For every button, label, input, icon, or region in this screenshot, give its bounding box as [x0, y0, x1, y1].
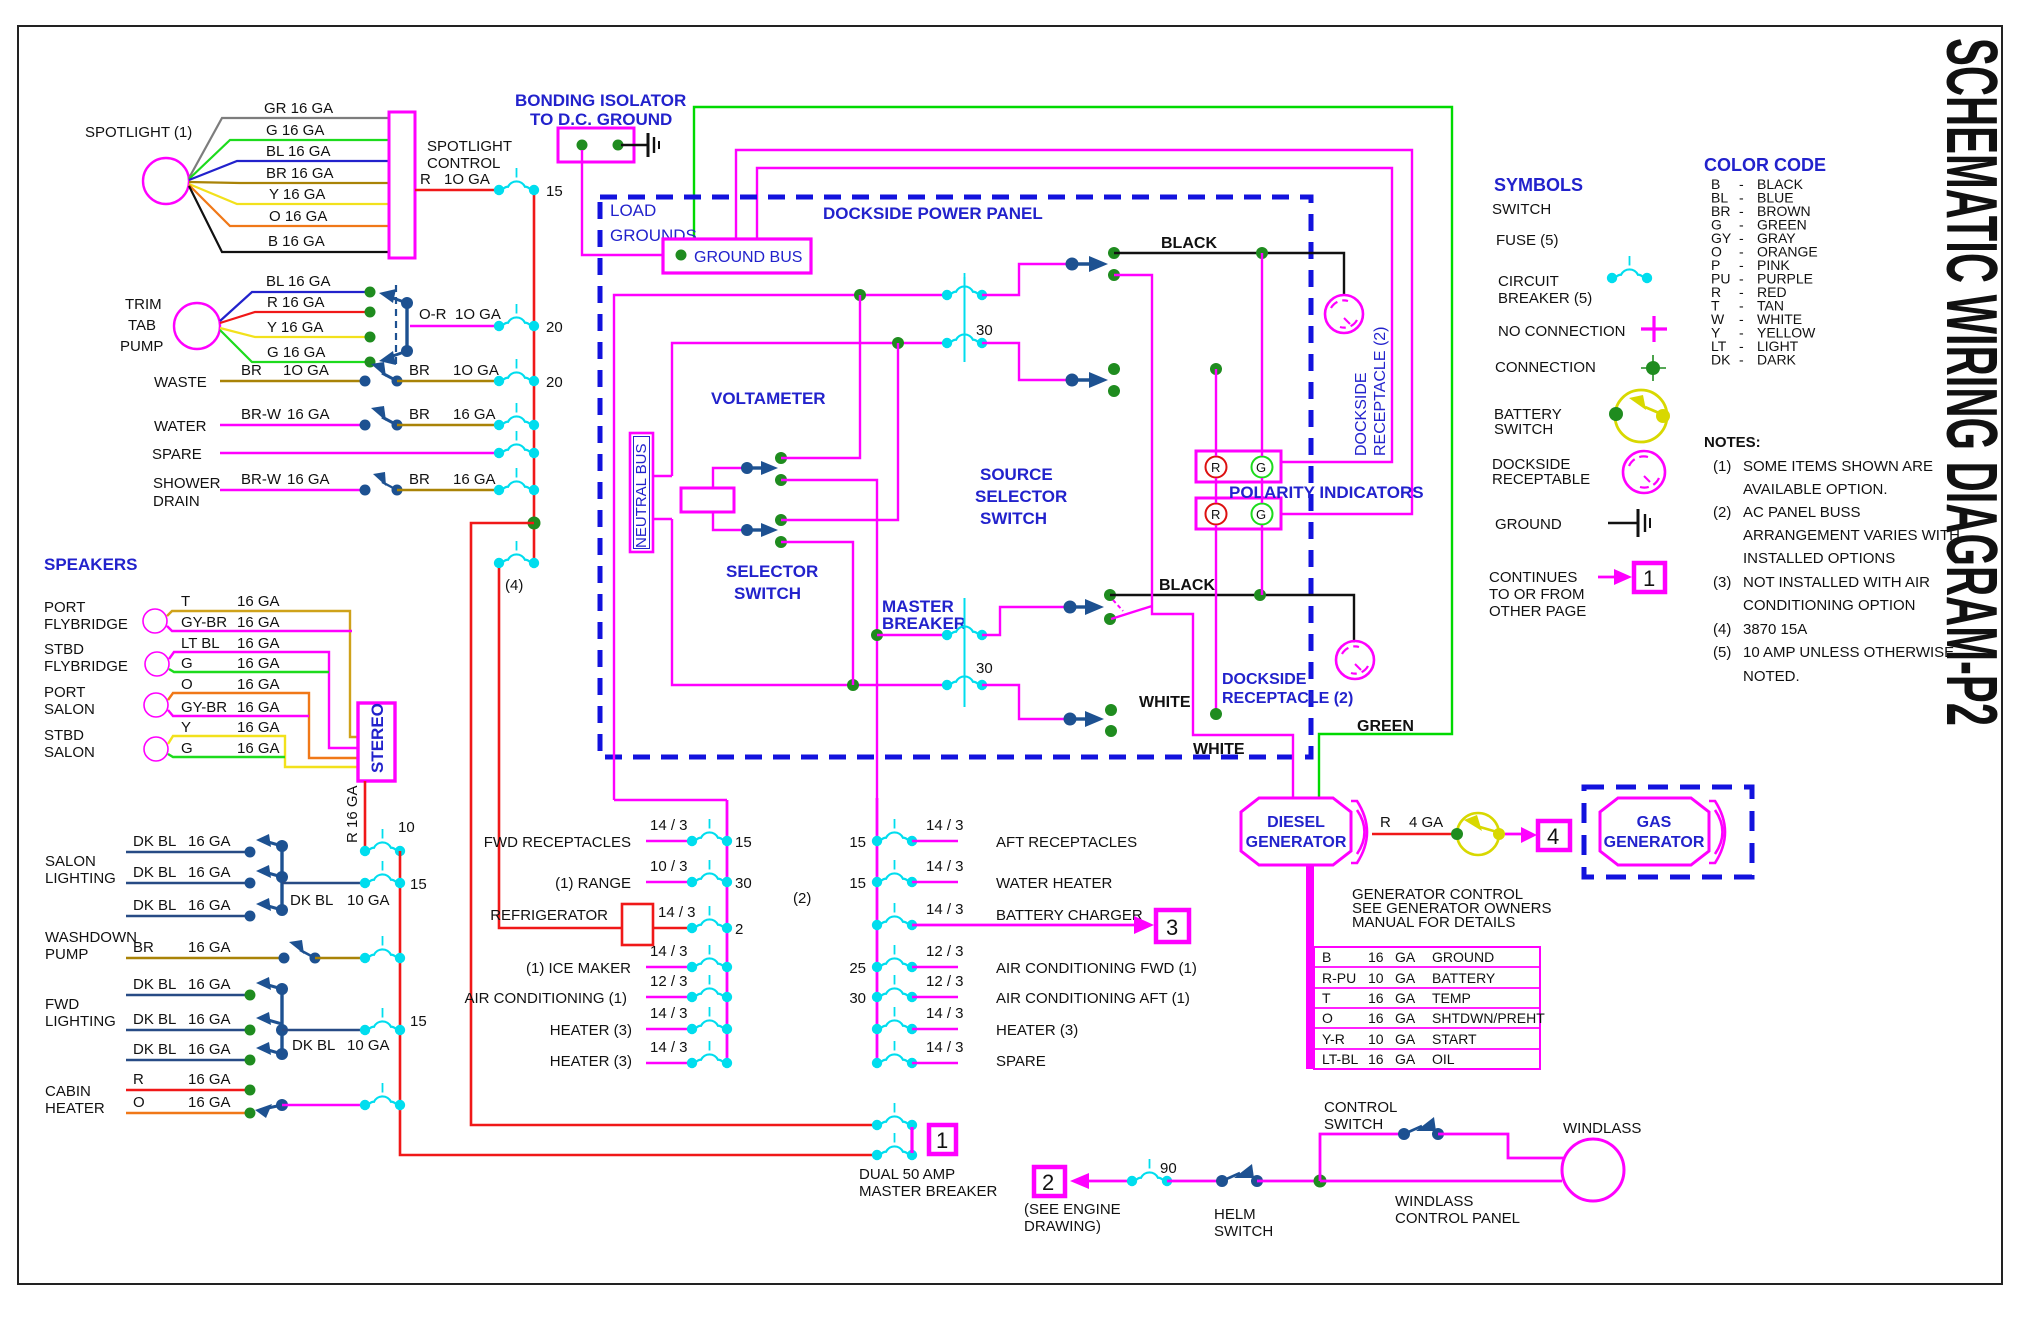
svg-text:FUSE (5): FUSE (5)	[1496, 232, 1559, 249]
svg-text:Y-R: Y-R	[1322, 1031, 1345, 1047]
svg-text:REFRIGERATOR: REFRIGERATOR	[490, 907, 608, 924]
svg-text:R 16 GA: R 16 GA	[344, 785, 361, 843]
svg-text:10 GA: 10 GA	[347, 892, 390, 909]
svg-text:10 GA: 10 GA	[347, 1037, 390, 1054]
wire DK BL 16 GA	[126, 1029, 250, 1031]
svg-text:SPARE: SPARE	[152, 446, 202, 463]
junction node	[1314, 1175, 1327, 1188]
BONDING ISOLATOR box	[558, 128, 634, 162]
svg-text:16 GA: 16 GA	[237, 740, 280, 757]
svg-text:BREAKER (5): BREAKER (5)	[1498, 290, 1592, 307]
svg-text:16 GA: 16 GA	[453, 471, 496, 488]
wire GY-BR 16 GA	[167, 626, 352, 631]
magenta polarity feed wire 2	[757, 168, 1392, 462]
svg-text:14 / 3: 14 / 3	[926, 901, 964, 918]
svg-text:DK BL: DK BL	[133, 833, 176, 850]
wire DK BL 16 GA	[126, 994, 250, 996]
red lighting bus	[400, 851, 877, 1155]
svg-text:DRAIN: DRAIN	[153, 493, 200, 510]
svg-text:14 / 3: 14 / 3	[926, 817, 964, 834]
wire DK BL 10 GA to breaker	[282, 882, 365, 884]
water switch	[360, 420, 371, 431]
wire R 4 GA	[1372, 833, 1457, 836]
svg-text:20: 20	[546, 319, 563, 336]
svg-text:DARK: DARK	[1757, 352, 1797, 368]
wire Y 16 GA	[168, 736, 358, 767]
svg-text:1: 1	[1643, 566, 1655, 591]
svg-text:(2): (2)	[793, 890, 811, 907]
circuit breaker 15 fwd lighting	[360, 1008, 405, 1035]
wire junction to windlass	[1320, 1180, 1562, 1183]
svg-text:16 GA: 16 GA	[237, 635, 280, 652]
svg-text:(1) ICE MAKER: (1) ICE MAKER	[526, 960, 631, 977]
svg-text:14 / 3: 14 / 3	[650, 817, 688, 834]
svg-text:TEMP: TEMP	[1432, 990, 1471, 1006]
svg-text:30: 30	[976, 322, 993, 339]
svg-text:SALON: SALON	[44, 744, 95, 761]
svg-text:O: O	[1322, 1010, 1333, 1026]
svg-text:AFT RECEPTACLES: AFT RECEPTACLES	[996, 834, 1137, 851]
svg-text:RECEPTABLE: RECEPTABLE	[1492, 471, 1590, 488]
svg-text:WINDLASS: WINDLASS	[1563, 1120, 1641, 1137]
svg-text:BR: BR	[409, 471, 430, 488]
svg-text:CIRCUIT: CIRCUIT	[1498, 273, 1559, 290]
wire DK BL 16 GA	[126, 882, 250, 884]
wire R 16 GA	[126, 1089, 250, 1091]
washdown switch	[279, 953, 290, 964]
gas generator dashed box	[1584, 787, 1752, 877]
svg-text:14 / 3: 14 / 3	[650, 1039, 688, 1056]
svg-text:NOTED.: NOTED.	[1743, 668, 1800, 685]
svg-text:DK BL: DK BL	[133, 1011, 176, 1028]
svg-text:10: 10	[398, 819, 415, 836]
shore line 2 wire	[672, 343, 947, 476]
svg-text:10: 10	[1368, 970, 1384, 986]
svg-text:T: T	[181, 593, 190, 610]
wire GY-BR 16 GA salon	[168, 710, 309, 716]
dockside receptacle 1	[1325, 295, 1363, 333]
wire Y 16 GA	[189, 184, 389, 204]
fwd lighting selector bar	[280, 989, 283, 1054]
dockside receptacle 2	[1336, 641, 1374, 679]
svg-text:16 GA: 16 GA	[287, 471, 330, 488]
svg-text:ARRANGEMENT VARIES WITH: ARRANGEMENT VARIES WITH	[1743, 527, 1960, 544]
svg-text:25: 25	[849, 960, 866, 977]
svg-text:DK BL: DK BL	[290, 892, 333, 909]
svg-text:Y: Y	[181, 719, 191, 736]
svg-text:1O GA: 1O GA	[283, 362, 329, 379]
svg-text:R: R	[420, 171, 431, 188]
control switch loop	[1320, 1134, 1404, 1181]
svg-text:MANUAL FOR DETAILS: MANUAL FOR DETAILS	[1352, 914, 1515, 931]
svg-text:10 AMP UNLESS OTHERWISE: 10 AMP UNLESS OTHERWISE	[1743, 644, 1954, 661]
svg-text:RECEPTACLE (2): RECEPTACLE (2)	[1372, 326, 1389, 456]
svg-text:SPARE: SPARE	[996, 1053, 1046, 1070]
svg-text:R 16 GA: R 16 GA	[267, 294, 325, 311]
svg-text:G: G	[1256, 507, 1266, 522]
svg-text:TO OR FROM: TO OR FROM	[1489, 586, 1585, 603]
master breaker tie bar	[910, 1127, 913, 1153]
svg-text:16 GA: 16 GA	[188, 1071, 231, 1088]
svg-text:(4): (4)	[1713, 621, 1731, 638]
svg-text:G 16 GA: G 16 GA	[266, 122, 324, 139]
svg-text:(5): (5)	[1713, 644, 1731, 661]
svg-text:14 / 3: 14 / 3	[926, 1039, 964, 1056]
circuit breaker 10 stereo	[360, 829, 405, 856]
svg-text:16 GA: 16 GA	[188, 976, 231, 993]
svg-text:WINDLASS: WINDLASS	[1395, 1193, 1473, 1210]
svg-text:OIL: OIL	[1432, 1051, 1455, 1067]
svg-text:BR: BR	[409, 362, 430, 379]
svg-text:R: R	[1211, 507, 1220, 522]
svg-text:FLYBRIDGE: FLYBRIDGE	[44, 658, 128, 675]
wire O 16 GA	[126, 1112, 250, 1114]
svg-text:16 GA: 16 GA	[188, 1094, 231, 1111]
circuit breaker spare	[494, 431, 539, 458]
svg-text:WATER HEATER: WATER HEATER	[996, 875, 1113, 892]
svg-text:FWD RECEPTACLES: FWD RECEPTACLES	[484, 834, 631, 851]
shore line 1 wire	[614, 295, 947, 800]
magenta polarity feed wire 1	[736, 150, 1412, 514]
svg-text:BATTERY CHARGER: BATTERY CHARGER	[996, 907, 1143, 924]
svg-text:16 GA: 16 GA	[188, 1041, 231, 1058]
selector wire to shore line 2	[781, 343, 898, 520]
svg-text:BONDING ISOLATOR: BONDING ISOLATOR	[515, 91, 686, 110]
master breaker switch white	[982, 685, 1070, 719]
dual master breaker upper	[872, 1103, 917, 1130]
svg-text:DK BL: DK BL	[133, 897, 176, 914]
svg-text:16: 16	[1368, 949, 1384, 965]
svg-text:STEREO: STEREO	[368, 703, 387, 773]
left AC distribution bus	[726, 800, 729, 1063]
svg-text:BR-W: BR-W	[241, 471, 282, 488]
svg-text:SPEAKERS: SPEAKERS	[44, 555, 138, 574]
svg-text:OTHER PAGE: OTHER PAGE	[1489, 603, 1586, 620]
svg-text:14 / 3: 14 / 3	[658, 904, 696, 921]
wire LT BL 16 GA	[169, 652, 358, 748]
circuit breaker 20 trim tab	[494, 304, 539, 331]
svg-text:3: 3	[1166, 915, 1178, 940]
svg-text:16 GA: 16 GA	[237, 719, 280, 736]
svg-text:14 / 3: 14 / 3	[926, 1005, 964, 1022]
svg-text:CONTROL: CONTROL	[427, 155, 500, 172]
svg-text:HEATER (3): HEATER (3)	[996, 1022, 1078, 1039]
salon lighting selector bar	[280, 846, 283, 910]
svg-text:B 16 GA: B 16 GA	[268, 233, 325, 250]
svg-text:NOTES:: NOTES:	[1704, 434, 1761, 451]
svg-text:WASHDOWN: WASHDOWN	[45, 929, 137, 946]
wire isolator to ground bus	[582, 150, 663, 255]
svg-text:MASTER BREAKER: MASTER BREAKER	[859, 1183, 998, 1200]
svg-text:SWITCH: SWITCH	[1494, 421, 1553, 438]
svg-text:16 GA: 16 GA	[237, 699, 280, 716]
svg-text:12 / 3: 12 / 3	[926, 943, 964, 960]
svg-text:16 GA: 16 GA	[287, 406, 330, 423]
wire B 16 GA	[189, 186, 389, 252]
trim tab pump motor	[174, 303, 220, 349]
svg-text:GROUND: GROUND	[1432, 949, 1494, 965]
neutral feed to master breaker	[672, 519, 947, 685]
svg-text:DUAL 50 AMP: DUAL 50 AMP	[859, 1166, 955, 1183]
red DC feed bus	[533, 190, 536, 563]
wire BL 16 GA	[189, 161, 389, 180]
svg-text:G 16 GA: G 16 GA	[267, 344, 325, 361]
arrow into box 2	[1070, 1173, 1089, 1189]
svg-text:SCHEMATIC WIRING DIAGRAM-P2: SCHEMATIC WIRING DIAGRAM-P2	[1931, 38, 2011, 726]
svg-text:GA: GA	[1395, 1010, 1416, 1026]
source selector feed lower	[982, 343, 1072, 380]
svg-text:WASTE: WASTE	[154, 374, 207, 391]
svg-text:G: G	[181, 740, 193, 757]
svg-text:(3): (3)	[1713, 574, 1731, 591]
source selector switch arm upper	[1066, 258, 1079, 271]
svg-text:RECEPTACLE (2): RECEPTACLE (2)	[1222, 690, 1353, 707]
svg-text:GROUND: GROUND	[1495, 516, 1562, 533]
svg-text:16 GA: 16 GA	[237, 593, 280, 610]
svg-text:16 GA: 16 GA	[453, 406, 496, 423]
svg-text:NEUTRAL BUS: NEUTRAL BUS	[633, 444, 650, 548]
svg-text:BLACK: BLACK	[1161, 235, 1217, 252]
svg-text:SWITCH: SWITCH	[1492, 201, 1551, 218]
svg-text:14 / 3: 14 / 3	[926, 858, 964, 875]
svg-text:Y 16 GA: Y 16 GA	[269, 186, 325, 203]
wire G 16 GA stbd salon	[168, 754, 285, 757]
svg-text:(4): (4)	[505, 577, 523, 594]
source selector feed upper	[982, 264, 1072, 295]
svg-text:SOURCE: SOURCE	[980, 465, 1053, 484]
svg-text:16 GA: 16 GA	[188, 897, 231, 914]
svg-text:30: 30	[976, 660, 993, 677]
svg-text:FLYBRIDGE: FLYBRIDGE	[44, 616, 128, 633]
wire helm to junction	[1257, 1180, 1320, 1183]
svg-text:O-R: O-R	[419, 306, 447, 323]
selector wire to distribution bus	[781, 480, 877, 800]
svg-text:SHTDWN/PREHT: SHTDWN/PREHT	[1432, 1010, 1545, 1026]
svg-text:15: 15	[410, 876, 427, 893]
svg-text:DK BL: DK BL	[133, 976, 176, 993]
wire DK BL 16 GA	[126, 1059, 250, 1061]
continuation box 2	[1034, 1167, 1065, 1196]
svg-text:16 GA: 16 GA	[188, 833, 231, 850]
svg-text:TO D.C. GROUND: TO D.C. GROUND	[530, 110, 672, 129]
wire O 16 GA	[168, 693, 358, 758]
polarity wiring	[1210, 363, 1222, 375]
NEUTRAL BUS	[630, 433, 653, 552]
svg-text:2: 2	[1042, 1170, 1054, 1195]
svg-text:DOCKSIDE POWER PANEL: DOCKSIDE POWER PANEL	[823, 204, 1043, 223]
svg-text:16 GA: 16 GA	[237, 614, 280, 631]
svg-text:SALON: SALON	[44, 701, 95, 718]
selector wire to shore line 1	[781, 295, 860, 458]
neutral bus stubs	[653, 475, 672, 477]
svg-text:O: O	[181, 676, 193, 693]
wire R 16 GA	[220, 312, 370, 323]
svg-text:15: 15	[735, 834, 752, 851]
svg-text:PUMP: PUMP	[45, 946, 88, 963]
svg-text:WHITE: WHITE	[1139, 694, 1191, 711]
svg-text:PUMP: PUMP	[120, 338, 163, 355]
wire DK BL 10 GA to breaker	[282, 1029, 365, 1031]
selector wire to master breaker line	[781, 542, 853, 685]
cabin heater switch	[276, 1099, 288, 1111]
svg-text:HELM: HELM	[1214, 1206, 1256, 1223]
svg-text:CABIN: CABIN	[45, 1083, 91, 1100]
wire O-R 1O GA	[410, 325, 500, 328]
svg-text:LOAD: LOAD	[610, 201, 656, 220]
circuit breaker cabin heater	[360, 1083, 405, 1110]
svg-text:NO CONNECTION: NO CONNECTION	[1498, 323, 1626, 340]
svg-text:10: 10	[1368, 1031, 1384, 1047]
wire G 16 GA	[169, 669, 329, 672]
svg-text:R-PU: R-PU	[1322, 970, 1356, 986]
svg-text:TRIM: TRIM	[125, 296, 162, 313]
svg-text:GA: GA	[1395, 970, 1416, 986]
wire red to master breaker top	[471, 523, 877, 1125]
svg-text:R: R	[133, 1071, 144, 1088]
continuation box 3	[1134, 916, 1154, 934]
svg-text:DK: DK	[1711, 352, 1731, 368]
svg-text:1: 1	[936, 1128, 948, 1153]
spotlight lamp SPOTLIGHT (1)	[143, 158, 189, 204]
svg-text:SHOWER: SHOWER	[153, 475, 221, 492]
wire R 1O GA	[415, 189, 500, 192]
svg-text:FWD: FWD	[45, 996, 79, 1013]
wire to breaker	[282, 1104, 365, 1106]
svg-text:R: R	[1380, 814, 1391, 831]
trim tab connection dots	[365, 287, 376, 298]
svg-text:LT BL: LT BL	[181, 635, 220, 652]
white switch blade wire	[1111, 606, 1152, 619]
svg-text:10 / 3: 10 / 3	[650, 858, 688, 875]
svg-text:STBD: STBD	[44, 641, 84, 658]
svg-text:NOT INSTALLED WITH AIR: NOT INSTALLED WITH AIR	[1743, 574, 1930, 591]
svg-text:GAS: GAS	[1637, 814, 1672, 831]
svg-text:16: 16	[1368, 1051, 1384, 1067]
svg-text:SYMBOLS: SYMBOLS	[1494, 175, 1583, 195]
svg-text:DK BL: DK BL	[133, 1041, 176, 1058]
circuit breaker shower drain	[494, 468, 539, 495]
svg-text:GA: GA	[1395, 1051, 1416, 1067]
svg-text:B: B	[1322, 949, 1331, 965]
wire control switch to windlass	[1438, 1134, 1566, 1158]
polarity indicator box 1	[1196, 451, 1281, 482]
svg-text:16 GA: 16 GA	[188, 939, 231, 956]
svg-text:PORT: PORT	[44, 684, 85, 701]
svg-text:3870 15A: 3870 15A	[1743, 621, 1807, 638]
svg-text:BR: BR	[409, 406, 430, 423]
svg-text:(2): (2)	[1713, 504, 1731, 521]
svg-text:PORT: PORT	[44, 599, 85, 616]
junction node	[528, 517, 541, 530]
generator control harness	[1306, 865, 1314, 1069]
windlass motor	[1562, 1139, 1624, 1201]
svg-text:16 GA: 16 GA	[237, 655, 280, 672]
svg-text:1O GA: 1O GA	[455, 306, 501, 323]
wire BR 16 GA	[189, 182, 389, 183]
svg-text:LIGHTING: LIGHTING	[45, 870, 116, 887]
dockside power panel dashed border	[600, 197, 1311, 757]
svg-text:SELECTOR: SELECTOR	[975, 487, 1067, 506]
svg-text:4: 4	[1547, 824, 1559, 849]
svg-text:4 GA: 4 GA	[1409, 814, 1443, 831]
svg-text:SWITCH: SWITCH	[1324, 1116, 1383, 1133]
svg-text:16: 16	[1368, 1010, 1384, 1026]
svg-text:AC PANEL BUSS: AC PANEL BUSS	[1743, 504, 1861, 521]
svg-text:DOCKSIDE: DOCKSIDE	[1222, 671, 1307, 688]
svg-text:DIESEL: DIESEL	[1267, 814, 1325, 831]
svg-text:BATTERY: BATTERY	[1432, 970, 1496, 986]
svg-text:(1): (1)	[1713, 458, 1731, 475]
svg-text:GA: GA	[1395, 990, 1416, 1006]
wire Y 16 GA	[220, 328, 370, 337]
wire GR 16 GA	[189, 118, 389, 178]
svg-text:GROUND BUS: GROUND BUS	[694, 249, 802, 266]
svg-text:SOME ITEMS SHOWN ARE: SOME ITEMS SHOWN ARE	[1743, 458, 1933, 475]
wire G 16 GA	[189, 140, 389, 179]
svg-text:16 GA: 16 GA	[188, 1011, 231, 1028]
svg-text:VOLTAMETER: VOLTAMETER	[711, 389, 826, 408]
wire red refrigerator feed	[499, 568, 622, 928]
wire R 16 GA stereo feed	[364, 781, 367, 851]
svg-text:30: 30	[849, 990, 866, 1007]
wire BR 16 GA	[126, 957, 284, 959]
svg-text:START: START	[1432, 1031, 1477, 1047]
svg-text:BR 16 GA: BR 16 GA	[266, 165, 334, 182]
diesel generator body	[1241, 798, 1351, 865]
circuit breaker washdown	[360, 936, 405, 963]
svg-text:SPOTLIGHT: SPOTLIGHT	[427, 138, 512, 155]
source selector switch arm lower	[1066, 374, 1079, 387]
svg-text:LIGHTING: LIGHTING	[45, 1013, 116, 1030]
svg-text:WHITE: WHITE	[1193, 741, 1245, 758]
stbd salon speaker	[144, 737, 168, 761]
svg-text:12 / 3: 12 / 3	[926, 973, 964, 990]
svg-text:SALON: SALON	[45, 853, 96, 870]
svg-text:DK BL: DK BL	[292, 1037, 335, 1054]
svg-text:WATER: WATER	[154, 418, 207, 435]
svg-text:BL 16 GA: BL 16 GA	[266, 273, 330, 290]
wire G 16 GA	[220, 330, 370, 362]
svg-text:GA: GA	[1395, 949, 1416, 965]
trim tab reversing switch	[395, 285, 397, 369]
wire to box 4	[1505, 833, 1524, 836]
svg-text:COLOR CODE: COLOR CODE	[1704, 155, 1826, 175]
svg-text:SWITCH: SWITCH	[1214, 1223, 1273, 1240]
svg-text:CONTROL PANEL: CONTROL PANEL	[1395, 1210, 1520, 1227]
svg-text:AIR CONDITIONING FWD (1): AIR CONDITIONING FWD (1)	[996, 960, 1197, 977]
circuit breaker 15 salon lighting	[360, 861, 405, 888]
svg-text:INSTALLED OPTIONS: INSTALLED OPTIONS	[1743, 550, 1895, 567]
svg-text:90: 90	[1160, 1160, 1177, 1177]
shore power fuse pair 30	[942, 273, 987, 300]
master breaker switch black	[982, 607, 1070, 635]
svg-text:1O GA: 1O GA	[453, 362, 499, 379]
svg-text:BR-W: BR-W	[241, 406, 282, 423]
svg-text:CONTINUES: CONTINUES	[1489, 569, 1577, 586]
svg-text:DRAWING): DRAWING)	[1024, 1218, 1101, 1235]
svg-text:BLACK: BLACK	[1159, 577, 1215, 594]
svg-text:GENERATOR: GENERATOR	[1604, 834, 1705, 851]
svg-text:DK BL: DK BL	[133, 864, 176, 881]
fuse 90	[1127, 1159, 1172, 1186]
svg-text:14 / 3: 14 / 3	[650, 1005, 688, 1022]
svg-text:SWITCH: SWITCH	[734, 584, 801, 603]
left AC bus feed	[614, 799, 727, 801]
waste switch	[360, 376, 371, 387]
master breaker line 1	[877, 634, 947, 636]
svg-text:GENERATOR: GENERATOR	[1246, 834, 1347, 851]
svg-text:R: R	[1211, 460, 1220, 475]
